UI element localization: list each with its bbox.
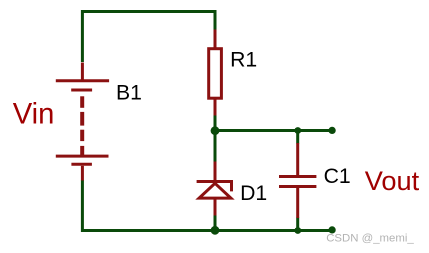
svg-text:Vout: Vout — [365, 165, 420, 196]
svg-text:Vin: Vin — [13, 98, 55, 130]
svg-text:D1: D1 — [240, 182, 267, 205]
svg-text:R1: R1 — [230, 49, 257, 72]
svg-text:B1: B1 — [116, 81, 142, 104]
svg-text:C1: C1 — [324, 165, 351, 188]
svg-text:CSDN @_memi_: CSDN @_memi_ — [326, 233, 414, 245]
